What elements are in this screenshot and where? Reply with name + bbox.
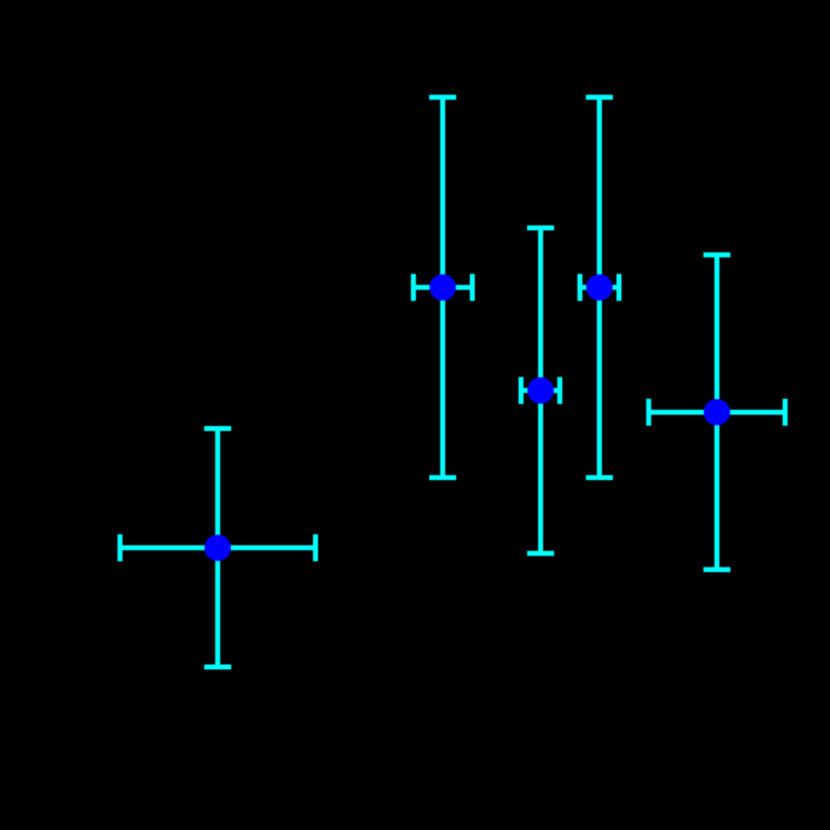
point 1 marker: [205, 535, 231, 561]
point 5 x error bar: [649, 410, 785, 415]
point 2 x error bar: [413, 285, 472, 290]
point 4 marker: [586, 274, 612, 300]
point 2 y error bar: [440, 97, 445, 477]
point 3 y error bar: [538, 228, 543, 554]
point 3 x error bar: [521, 388, 560, 393]
point 5 marker: [704, 399, 730, 425]
point 1 y error bar: [215, 429, 220, 668]
point 1 x error bar: [120, 545, 316, 550]
point 5 y error bar: [714, 255, 719, 570]
point 2 marker: [430, 274, 456, 300]
point 4 x error bar: [580, 285, 619, 290]
point 3 marker: [527, 377, 553, 403]
point 4 y error bar: [597, 97, 602, 477]
